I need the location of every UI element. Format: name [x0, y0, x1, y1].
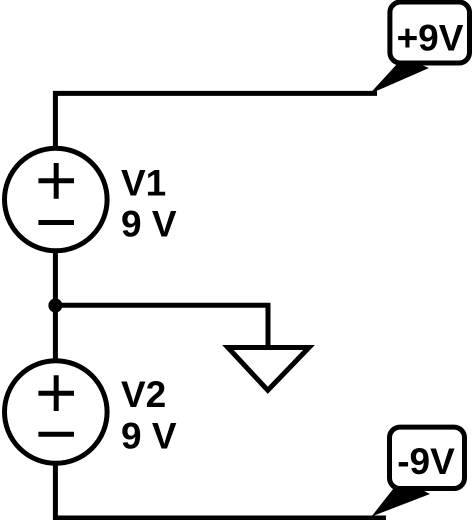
svg-text:-9V: -9V [397, 441, 455, 482]
wire from V2 bottom to -9V flag [55, 412, 386, 518]
svg-text:V2: V2 [121, 374, 166, 415]
svg-text:V1: V1 [121, 162, 166, 203]
net flag -9V [372, 427, 465, 516]
net flag +9V [370, 2, 470, 94]
wire from V1 bottom to V2 top [53, 199, 58, 412]
voltage source V1 [5, 148, 108, 251]
wire from junction to ground [55, 305, 268, 349]
svg-text:+9V: +9V [397, 18, 464, 59]
ground [228, 348, 309, 391]
node junction [48, 299, 62, 313]
svg-text:9 V: 9 V [121, 415, 177, 456]
svg-text:9 V: 9 V [121, 204, 177, 245]
wire from V1 top to +9V flag [55, 93, 377, 199]
voltage source V2 [5, 361, 108, 464]
